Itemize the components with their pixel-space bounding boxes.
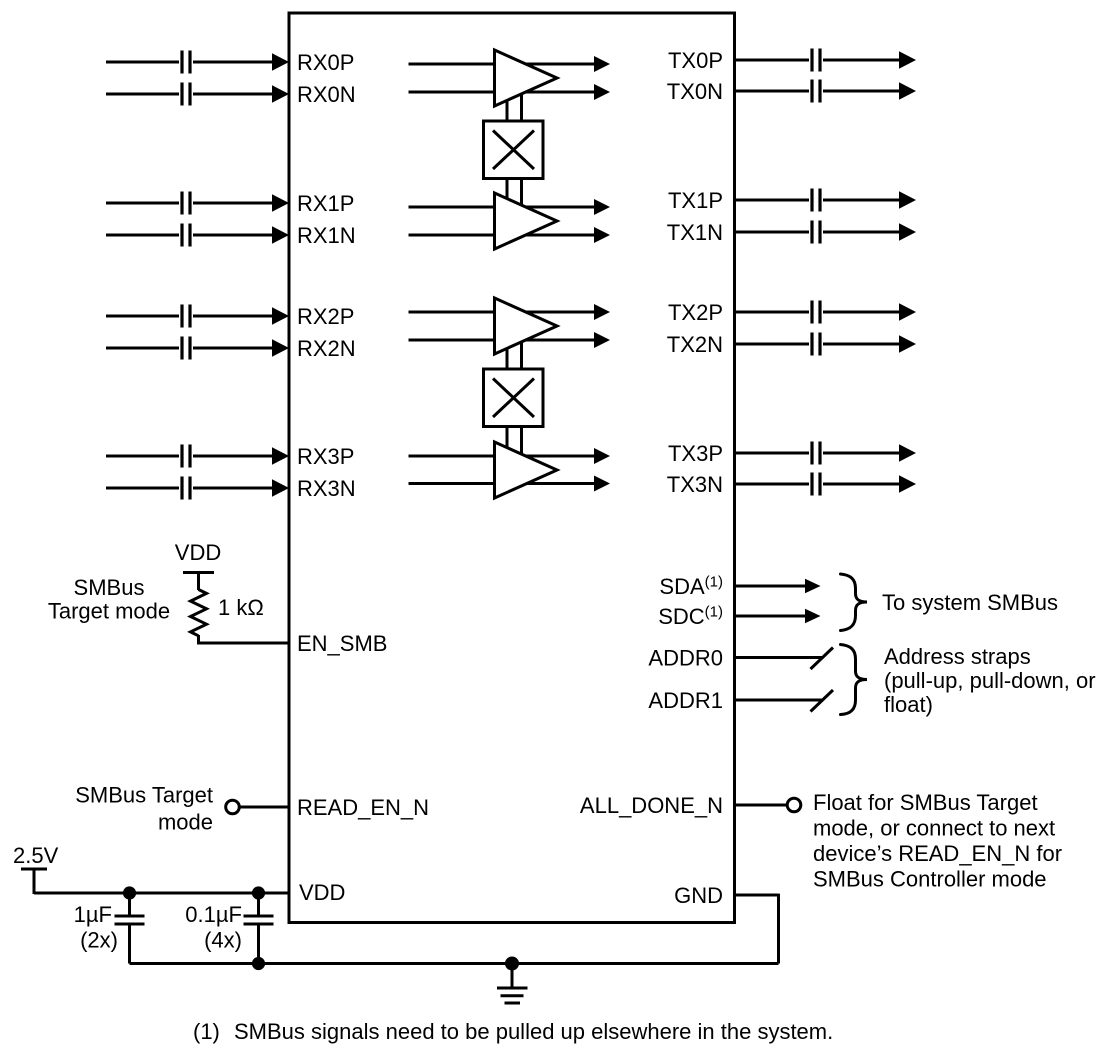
wire RX3P input segment — [106, 455, 179, 458]
value label (2x) — [80, 928, 118, 953]
capacitor C16 (AC coupling, TX3N) — [812, 473, 820, 496]
wire TX3N output segment — [823, 483, 899, 486]
svg-text:RX0P: RX0P — [297, 50, 354, 75]
wire EN_SMB — [197, 642, 289, 645]
resistor R1 1 kOhm — [191, 590, 207, 645]
arrowhead TX2P output — [899, 303, 916, 320]
arrowhead TX0N output — [899, 82, 916, 99]
arrowhead SDC — [805, 609, 821, 623]
svg-text:TX3P: TX3P — [668, 441, 723, 466]
pin label TX0P — [668, 48, 723, 73]
arrowhead internal channel 3 P — [594, 448, 610, 464]
pin label TX1N — [667, 220, 723, 245]
wire TX2P output segment — [823, 311, 899, 314]
terminal circle ALL_DONE_N — [787, 798, 801, 812]
annotation ALL_DONE_N line 2 — [813, 816, 1055, 841]
svg-text:(pull-up, pull-down, or: (pull-up, pull-down, or — [884, 668, 1096, 693]
wire squelch connector cluster B — [507, 326, 522, 470]
svg-text:TX1P: TX1P — [668, 188, 723, 213]
wire RX2P input segment — [106, 315, 179, 318]
arrowhead internal channel 0 P — [594, 56, 610, 72]
svg-text:1µF: 1µF — [74, 902, 112, 927]
wire RX3N to pin — [193, 487, 273, 490]
amplifier A1 (channel 0 buffer) — [495, 50, 558, 106]
capacitor C2 (AC coupling, RX0N) — [182, 83, 190, 106]
svg-text:device’s READ_EN_N for: device’s READ_EN_N for — [813, 841, 1062, 866]
wire ADDR1 strap — [734, 699, 824, 702]
net label VDD (pull-up supply) — [175, 540, 221, 565]
capacitor C12 (AC coupling, TX1N) — [812, 221, 820, 244]
ground symbol — [497, 964, 528, 1004]
svg-text:0.1µF: 0.1µF — [185, 902, 242, 927]
svg-text:(2x): (2x) — [80, 928, 118, 953]
pin label RX3P — [297, 444, 354, 469]
annotation ALL_DONE_N line 4 — [813, 867, 1047, 892]
svg-text:Float for SMBus Target: Float for SMBus Target — [813, 790, 1038, 815]
svg-text:VDD: VDD — [175, 540, 221, 565]
wire internal channel 0 P — [409, 63, 595, 66]
wire TX0N from pin — [734, 90, 809, 93]
pin label RX2N — [297, 336, 356, 361]
terminal circle READ_EN_N — [226, 800, 240, 814]
svg-text:RX1N: RX1N — [297, 223, 356, 248]
wire RX3P to pin — [193, 455, 273, 458]
pin label ADDR0 — [648, 646, 723, 671]
wire RX2N to pin — [193, 347, 273, 350]
annotation To system SMBus — [882, 590, 1058, 615]
capacitor C3 (AC coupling, RX1P) — [182, 192, 190, 215]
svg-text:mode: mode — [158, 810, 213, 835]
squelch detector block X2 — [484, 369, 544, 427]
svg-text:(1): (1) — [193, 1019, 220, 1044]
pin label RX1P — [297, 191, 354, 216]
arrowhead internal channel 1 N — [594, 227, 610, 243]
svg-text:Target mode: Target mode — [48, 599, 170, 624]
pin label RX0N — [297, 82, 356, 107]
svg-text:RX2N: RX2N — [297, 336, 356, 361]
svg-text:RX3P: RX3P — [297, 444, 354, 469]
wire SDC — [734, 615, 805, 618]
svg-text:Address straps: Address straps — [884, 644, 1031, 669]
footnote text — [234, 1019, 833, 1044]
wire RX1P to pin — [193, 202, 273, 205]
arrowhead TX1P output — [899, 191, 916, 208]
annotation ALL_DONE_N line 1 — [813, 790, 1038, 815]
svg-text:SDC(1): SDC(1) — [658, 604, 723, 630]
arrowhead TX1N output — [899, 223, 916, 240]
annotation Address straps line 3 — [884, 692, 933, 717]
svg-text:TX2N: TX2N — [667, 332, 723, 357]
pin label SDC with footnote ref — [658, 604, 723, 630]
pin label TX2N — [667, 332, 723, 357]
svg-text:ADDR0: ADDR0 — [648, 646, 723, 671]
svg-text:TX0P: TX0P — [668, 48, 723, 73]
wire ADDR0 strap — [734, 656, 824, 659]
svg-text:RX1P: RX1P — [297, 191, 354, 216]
pin label TX2P — [668, 300, 723, 325]
annotation ALL_DONE_N line 3 — [813, 841, 1062, 866]
wire RX0P to pin — [193, 61, 273, 64]
amplifier A3 (channel 2 buffer) — [495, 298, 558, 354]
svg-text:ALL_DONE_N: ALL_DONE_N — [580, 793, 723, 818]
value label (4x) — [204, 928, 242, 953]
wire internal channel 2 P — [409, 311, 595, 314]
svg-text:GND: GND — [674, 883, 723, 908]
wire TX3P from pin — [734, 452, 809, 455]
pin label SDA with footnote ref — [659, 574, 723, 600]
annotation SMBus Target mode (EN_SMB) line 1 — [74, 575, 145, 600]
svg-text:(4x): (4x) — [204, 928, 242, 953]
wire READ_EN_N — [240, 806, 290, 809]
wire ALL_DONE_N — [734, 804, 787, 807]
annotation Address straps line 1 — [884, 644, 1031, 669]
wire RX0P input segment — [106, 61, 179, 64]
wire TX1N from pin — [734, 231, 809, 234]
wire TX2N output segment — [823, 343, 899, 346]
capacitor C9 (AC coupling, TX0P) — [812, 49, 820, 72]
wire internal channel 3 P — [409, 455, 595, 458]
svg-text:TX2P: TX2P — [668, 300, 723, 325]
svg-text:To system SMBus: To system SMBus — [882, 590, 1058, 615]
pin label EN_SMB — [297, 631, 387, 656]
pin label GND — [674, 883, 723, 908]
svg-text:TX1N: TX1N — [667, 220, 723, 245]
wire internal channel 3 N — [409, 482, 595, 485]
brace to-system-SMBus — [841, 574, 868, 631]
wire GND pin to corner — [734, 894, 779, 964]
wire RX1N input segment — [106, 234, 179, 237]
pin label TX0N — [667, 79, 723, 104]
wire TX2N from pin — [734, 343, 809, 346]
arrowhead internal channel 2 P — [594, 304, 610, 320]
wire ground rail — [130, 962, 779, 965]
value label 1 kOhm — [218, 595, 264, 620]
wire RX0N input segment — [106, 93, 179, 96]
pin label TX3P — [668, 441, 723, 466]
pin label RX1N — [297, 223, 356, 248]
junction dot VDD-C18 — [252, 886, 265, 899]
arrowhead TX3N output — [899, 475, 916, 492]
capacitor C4 (AC coupling, RX1N) — [182, 224, 190, 247]
svg-text:TX0N: TX0N — [667, 79, 723, 104]
wire SDA — [734, 585, 805, 588]
wire TX2P from pin — [734, 311, 809, 314]
svg-text:SMBus signals need to be pulle: SMBus signals need to be pulled up elsew… — [234, 1019, 833, 1044]
pin label TX1P — [668, 188, 723, 213]
wire TX1P from pin — [734, 199, 809, 202]
capacitor C1 (AC coupling, RX0P) — [182, 51, 190, 74]
wire RX3N input segment — [106, 487, 179, 490]
capacitor C8 (AC coupling, RX3N) — [182, 477, 190, 500]
svg-text:SDA(1): SDA(1) — [659, 574, 723, 600]
svg-text:RX2P: RX2P — [297, 304, 354, 329]
arrowhead TX0P output — [899, 51, 916, 68]
arrow into RX3P pin — [272, 447, 289, 464]
brace address-straps — [841, 645, 868, 715]
arrow into RX0N pin — [272, 85, 289, 102]
pin label ALL_DONE_N — [580, 793, 723, 818]
arrowhead internal channel 0 N — [594, 84, 610, 100]
pin label TX3N — [667, 472, 723, 497]
strap slash ADDR1 — [811, 690, 834, 712]
capacitor C11 (AC coupling, TX1P) — [812, 189, 820, 212]
IC body U1 (redriver) — [289, 13, 735, 923]
arrow into RX1P pin — [272, 194, 289, 211]
arrow into RX3N pin — [272, 479, 289, 496]
capacitor C6 (AC coupling, RX2N) — [182, 337, 190, 360]
wire TX3P output segment — [823, 452, 899, 455]
svg-text:READ_EN_N: READ_EN_N — [297, 795, 429, 820]
amplifier A2 (channel 1 buffer) — [495, 193, 558, 249]
footnote marker (1) — [193, 1019, 220, 1044]
wire RX1N to pin — [193, 234, 273, 237]
svg-text:2.5V: 2.5V — [13, 843, 59, 868]
wire RX0N to pin — [193, 93, 273, 96]
junction dot C18-gnd — [252, 957, 265, 970]
arrowhead internal channel 2 N — [594, 332, 610, 348]
pin label VDD — [299, 880, 345, 905]
capacitor C7 (AC coupling, RX3P) — [182, 445, 190, 468]
arrow into RX1N pin — [272, 226, 289, 243]
pin label RX2P — [297, 304, 354, 329]
VDD supply rail symbol — [183, 571, 214, 590]
svg-text:SMBus Controller mode: SMBus Controller mode — [813, 867, 1047, 892]
svg-text:EN_SMB: EN_SMB — [297, 631, 387, 656]
value label 1uF — [74, 902, 112, 927]
annotation Address straps line 2 — [884, 668, 1096, 693]
capacitor C14 (AC coupling, TX2N) — [812, 333, 820, 356]
wire squelch connector cluster A — [507, 78, 522, 221]
wire internal channel 1 N — [409, 234, 595, 237]
arrowhead TX3P output — [899, 444, 916, 461]
svg-text:SMBus: SMBus — [74, 575, 145, 600]
value label 0.1uF — [185, 902, 242, 927]
net label 2.5V supply — [13, 843, 59, 868]
arrowhead internal channel 3 N — [594, 476, 610, 492]
2.5V supply rail symbol — [21, 868, 47, 895]
pin label RX0P — [297, 50, 354, 75]
arrow into RX2N pin — [272, 339, 289, 356]
wire TX3N from pin — [734, 483, 809, 486]
svg-text:float): float) — [884, 692, 933, 717]
arrow into RX0P pin — [272, 53, 289, 70]
arrowhead SDA — [805, 579, 821, 593]
capacitor C17 1uF (2x) — [115, 893, 145, 964]
pin label ADDR1 — [648, 688, 723, 713]
pin label READ_EN_N — [297, 795, 429, 820]
arrowhead internal channel 1 P — [594, 199, 610, 215]
svg-text:1 kΩ: 1 kΩ — [218, 595, 264, 620]
capacitor C18 0.1uF (4x) — [244, 893, 274, 964]
amplifier A4 (channel 3 buffer) — [495, 442, 558, 498]
capacitor C5 (AC coupling, RX2P) — [182, 305, 190, 328]
wire internal channel 2 N — [409, 339, 595, 342]
wire internal channel 0 N — [409, 91, 595, 94]
arrowhead TX2N output — [899, 335, 916, 352]
svg-text:mode, or connect to next: mode, or connect to next — [813, 816, 1055, 841]
wire TX0P from pin — [734, 59, 809, 62]
junction dot VDD-C17 — [123, 886, 136, 899]
wire TX1N output segment — [823, 231, 899, 234]
svg-text:VDD: VDD — [299, 880, 345, 905]
wire TX0N output segment — [823, 90, 899, 93]
wire TX1P output segment — [823, 199, 899, 202]
junction dot ground-symbol — [505, 957, 519, 971]
svg-text:ADDR1: ADDR1 — [648, 688, 723, 713]
annotation SMBus Target mode (EN_SMB) line 2 — [48, 599, 170, 624]
capacitor C10 (AC coupling, TX0N) — [812, 80, 820, 103]
annotation SMBus Target mode (READ_EN_N) line 2 — [158, 810, 213, 835]
squelch detector block X1 — [484, 121, 544, 179]
wire RX2P to pin — [193, 315, 273, 318]
wire TX0P output segment — [823, 59, 899, 62]
capacitor C13 (AC coupling, TX2P) — [812, 301, 820, 324]
wire RX1P input segment — [106, 202, 179, 205]
wire internal channel 1 P — [409, 206, 595, 209]
svg-text:RX3N: RX3N — [297, 476, 356, 501]
strap slash ADDR0 — [811, 648, 834, 670]
wire RX2N input segment — [106, 347, 179, 350]
pin label RX3N — [297, 476, 356, 501]
capacitor C15 (AC coupling, TX3P) — [812, 442, 820, 465]
svg-text:SMBus Target: SMBus Target — [75, 783, 213, 808]
svg-text:RX0N: RX0N — [297, 82, 356, 107]
arrow into RX2P pin — [272, 307, 289, 324]
svg-text:TX3N: TX3N — [667, 472, 723, 497]
wire VDD supply — [34, 892, 289, 895]
annotation SMBus Target mode (READ_EN_N) line 1 — [75, 783, 213, 808]
